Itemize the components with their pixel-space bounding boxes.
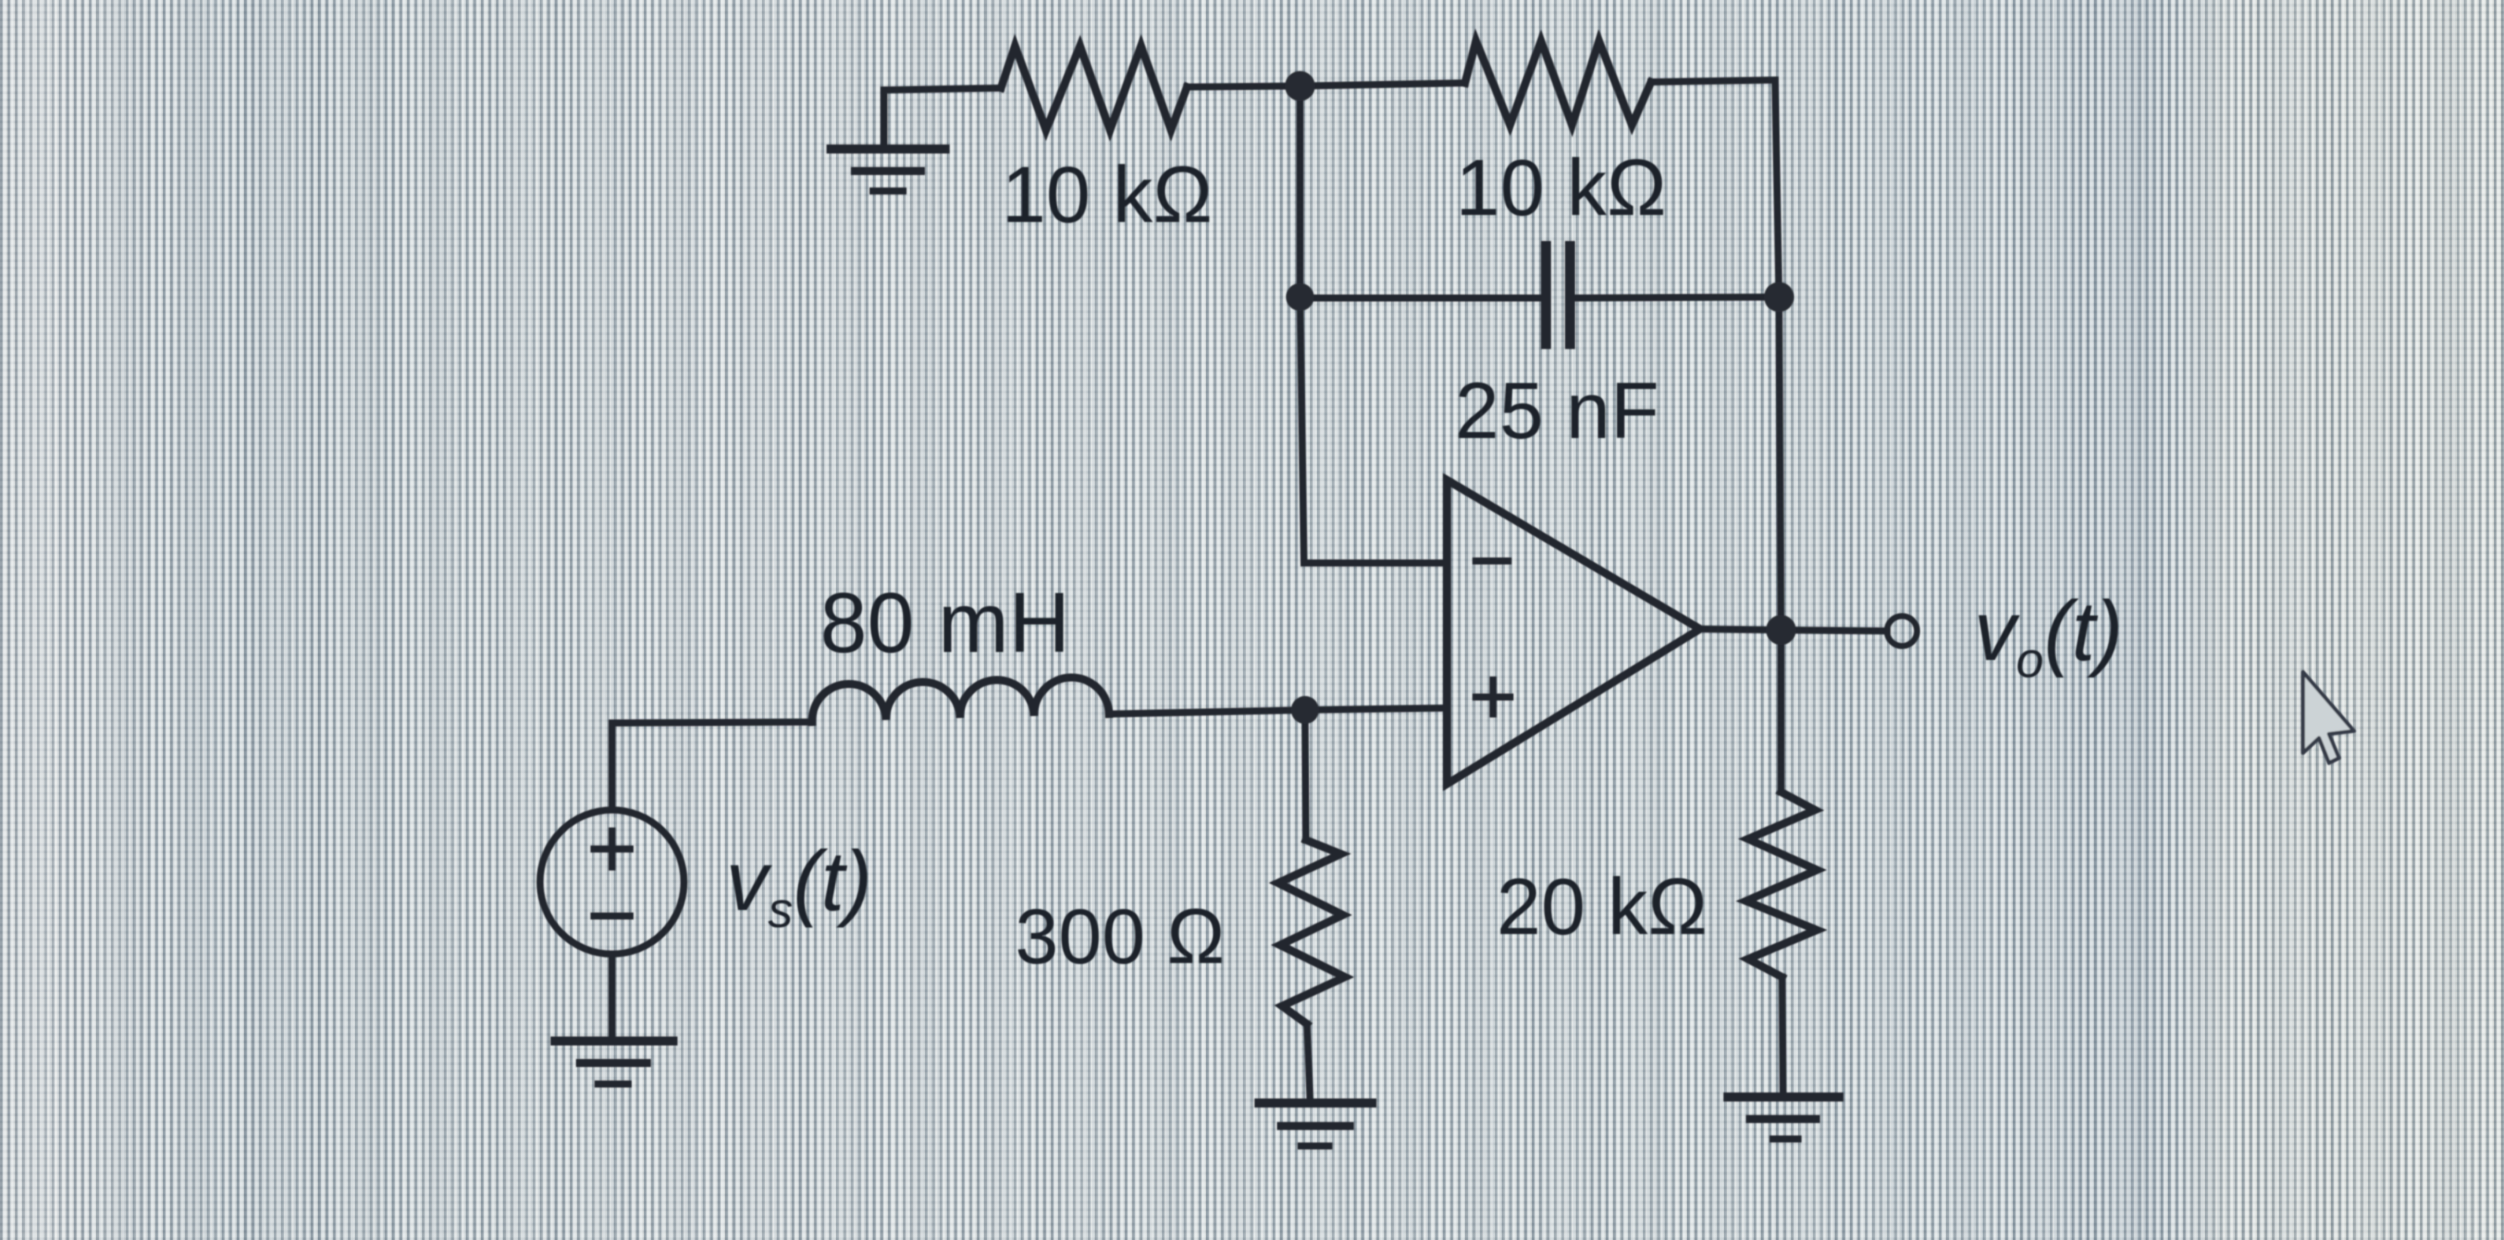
resistor 300 Ohm	[1278, 840, 1345, 1024]
wire: left vertical node A to node C	[1297, 86, 1304, 297]
resistor 10 kOhm (right, feedback)	[1465, 41, 1651, 125]
wire: R-right to top-right corner down to node B	[1651, 80, 1779, 297]
wire: node E down to 20 kOhm resistor	[1778, 630, 1785, 792]
ground (top-left)	[831, 149, 945, 191]
node A junction	[1285, 71, 1315, 101]
wire: node B down to output node E	[1779, 297, 1781, 630]
inductor 80 mH	[812, 677, 1109, 722]
svg-text:25 nF: 25 nF	[1455, 366, 1660, 455]
svg-text:20 kΩ: 20 kΩ	[1496, 862, 1707, 951]
wire: op-amp output to node E and to terminal	[1700, 629, 1887, 631]
node C junction	[1286, 283, 1314, 311]
resistor 20 kOhm	[1746, 792, 1817, 977]
svg-text:vo(t): vo(t)	[1974, 584, 2123, 688]
wire: node D to op-amp non-inverting input	[1305, 708, 1447, 710]
wire: 300 Ohm resistor to ground	[1307, 1024, 1310, 1100]
capacitor 25 nF	[1546, 246, 1570, 344]
svg-text:10 kΩ: 10 kΩ	[1455, 143, 1666, 232]
wire: node D down to 300 Ohm resistor	[1305, 710, 1306, 840]
wire: R-left to node A	[1187, 86, 1300, 87]
svg-text:80 mH: 80 mH	[820, 576, 1070, 671]
wire: capacitor right lead to node B	[1575, 297, 1779, 298]
ground (300 Ohm)	[1259, 1103, 1372, 1146]
ground (source)	[555, 1041, 673, 1084]
wire: 20 kOhm resistor to ground	[1782, 977, 1783, 1094]
terminal vo(t) open circle	[1887, 616, 1917, 646]
svg-text:vs(t): vs(t)	[726, 834, 872, 938]
wire: node A to resistor R-right	[1300, 83, 1465, 86]
voltage source vs(t)	[540, 810, 684, 954]
wire: source bottom to ground	[609, 954, 616, 1038]
node B junction	[1764, 282, 1794, 312]
svg-text:10 kΩ: 10 kΩ	[1001, 150, 1212, 239]
svg-text:300 Ω: 300 Ω	[1015, 892, 1225, 980]
wire: inductor to node D	[1109, 710, 1305, 714]
node E junction	[1766, 615, 1796, 645]
wire: capacitor left lead from node C	[1300, 295, 1541, 302]
wire: top-left ground stem to resistor R-left	[884, 88, 1001, 146]
node D junction	[1291, 696, 1319, 724]
op-amp U1	[1447, 480, 1700, 784]
mouse cursor	[2303, 672, 2354, 763]
wire: source top corner to inductor	[612, 722, 812, 810]
wire: node C down and right to op-amp inverting input	[1300, 297, 1447, 563]
resistor 10 kOhm (left, input)	[1001, 46, 1187, 130]
ground (20 kOhm)	[1728, 1097, 1839, 1139]
